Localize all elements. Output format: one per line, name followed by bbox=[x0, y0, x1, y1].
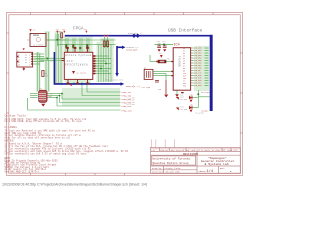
svg-text:LED-GRN: LED-GRN bbox=[180, 99, 188, 101]
svg-text:REVISIONS: REVISIONS bbox=[183, 153, 198, 156]
svg-text:EED: EED bbox=[183, 86, 186, 88]
svg-text:PA_VLBUS: PA_VLBUS bbox=[201, 91, 210, 94]
svg-text:Rev area of and. and all it wi: Rev area of and. and all it with: or tha… bbox=[171, 149, 238, 152]
svg-text:ECO No.: ECO No. bbox=[161, 149, 169, 152]
svg-text:USB Interface: USB Interface bbox=[168, 28, 203, 33]
svg-text:FPGA: FPGA bbox=[73, 26, 84, 31]
svg-text:Rev:: Rev: bbox=[220, 167, 225, 170]
svg-text:VCC: VCC bbox=[159, 53, 162, 55]
svg-text:IC2: IC2 bbox=[16, 51, 19, 53]
svg-text:Drawn by: M.USCyng 7/3/08: Drawn by: M.USCyng 7/3/08 bbox=[152, 167, 181, 170]
svg-text:EP2C5T288C8: EP2C5T288C8 bbox=[65, 63, 88, 66]
svg-text:FPGA_CLKOUT_PDR: FPGA_CLKOUT_PDR bbox=[105, 78, 124, 81]
svg-text:IC3: IC3 bbox=[66, 60, 73, 63]
svg-text:Quantum Optics Group: Quantum Optics Group bbox=[153, 161, 189, 165]
svg-text:Also for all to that off inter: Also for all to that off interface here … bbox=[5, 137, 72, 140]
svg-text:CH 2 USB #46B: Brag Offset For: CH 2 USB #46B: Brag Offset Formulas #D t… bbox=[5, 120, 83, 123]
svg-text:C15: C15 bbox=[158, 89, 161, 91]
svg-text:LED-RED: LED-RED bbox=[180, 109, 188, 111]
svg-text:Issue Date: AR#-0U6 schd: Issue Date: AR#-0U6 schd bbox=[152, 170, 179, 173]
svg-text:VCC: VCC bbox=[84, 29, 87, 31]
svg-text:B4: B4 bbox=[25, 62, 27, 64]
svg-text:USB_EED: USB_EED bbox=[194, 84, 203, 87]
svg-text:VCC: VCC bbox=[62, 29, 65, 31]
svg-text:DPRAM_ADDR: DPRAM_ADDR bbox=[127, 48, 139, 51]
svg-text:R1: R1 bbox=[59, 31, 61, 33]
svg-text:FT245BM: FT245BM bbox=[178, 56, 181, 67]
svg-text:PA_ALGND: PA_ALGND bbox=[195, 111, 204, 114]
svg-text:10k: 10k bbox=[45, 75, 48, 77]
svg-text:R10: R10 bbox=[49, 96, 52, 98]
svg-text:5: 5 bbox=[29, 65, 30, 67]
svg-text:Altera Cyclone: Altera Cyclone bbox=[65, 53, 91, 57]
svg-text:& Systems Lab: & Systems Lab bbox=[205, 162, 229, 166]
svg-text:FPGA_INIT: FPGA_INIT bbox=[122, 109, 134, 112]
svg-text:FB1: FB1 bbox=[167, 59, 170, 61]
svg-text:Q1: Q1 bbox=[144, 68, 146, 70]
svg-text:FPGA_D[0..7]: FPGA_D[0..7] bbox=[128, 32, 142, 35]
svg-text:IC4: IC4 bbox=[174, 44, 180, 48]
svg-text:And MAX AND-CZI (07477+): And MAX AND-CZI (07477+) bbox=[5, 170, 40, 173]
svg-text:.1uF .1uF: .1uF .1uF bbox=[157, 43, 166, 45]
svg-text:FPGA_A[0..7]: FPGA_A[0..7] bbox=[126, 85, 140, 88]
svg-text:C14 27pF: C14 27pF bbox=[142, 87, 151, 89]
svg-text:University of Toronto: University of Toronto bbox=[153, 157, 191, 161]
svg-text:JP2: JP2 bbox=[39, 89, 42, 91]
svg-text:10/23/2008 03:40:56p C:\Proje: 10/23/2008 03:40:56p C:\Projects\Archive… bbox=[2, 183, 147, 187]
svg-text:24.576MHZ: 24.576MHZ bbox=[33, 43, 45, 46]
svg-text:A5: A5 bbox=[18, 64, 20, 67]
svg-text:VCC: VCC bbox=[33, 30, 36, 32]
svg-text:FPGA_NCF: FPGA_NCF bbox=[122, 105, 132, 108]
svg-text:R2 R3: R2 R3 bbox=[103, 39, 108, 41]
svg-text:Sheet:: Sheet: bbox=[199, 170, 207, 173]
svg-text:5) Ion eventually use the 3.3V: 5) Ion eventually use the 3.3V of watch … bbox=[5, 153, 87, 156]
svg-text:AL CYCII: AL CYCII bbox=[77, 72, 87, 75]
svg-text:1/4: 1/4 bbox=[207, 169, 213, 174]
